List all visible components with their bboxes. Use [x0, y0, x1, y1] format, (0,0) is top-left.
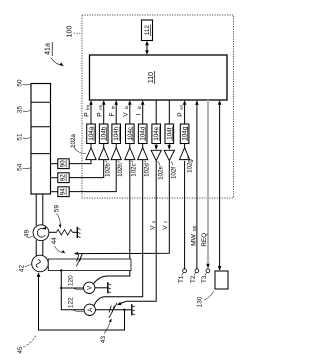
svg-text:T3: T3: [201, 275, 208, 283]
label 41a: [45, 42, 64, 66]
label 130: [197, 291, 214, 307]
svg-text:59: 59: [53, 205, 60, 213]
svg-text:in: in: [110, 105, 115, 109]
svg-text:MW: MW: [191, 233, 198, 245]
box 130: [215, 271, 228, 289]
label 43: [100, 318, 112, 343]
label 102b: [104, 161, 111, 177]
svg-text:45: 45: [17, 346, 24, 354]
svg-text:V: V: [162, 225, 169, 230]
svg-text:44: 44: [51, 237, 58, 245]
svg-text:F: F: [109, 112, 116, 116]
svg-text:102e: 102e: [158, 166, 165, 180]
amplifier triangle 102d: [138, 144, 148, 160]
variable element 43: [109, 303, 117, 318]
svg-text:102a: 102a: [70, 134, 77, 148]
amplifier triangle 102b: [99, 144, 109, 160]
svg-text:41a: 41a: [45, 43, 52, 55]
svg-text:fm: fm: [85, 105, 90, 110]
wire T2 (MW_SE) into 110: [196, 104, 198, 269]
AC source 42: [32, 255, 49, 272]
svg-text:sn: sn: [179, 104, 184, 109]
wire voltmeter to ground: [95, 287, 108, 289]
svg-text:49: 49: [24, 230, 31, 238]
dashed enclosure box 100: [82, 15, 234, 198]
sensor box 92: [51, 173, 70, 183]
svg-text:90: 90: [60, 160, 67, 167]
label 59: [53, 205, 61, 229]
label 102d: [143, 161, 150, 177]
label 35: [17, 106, 31, 114]
label 102e: [158, 161, 165, 180]
ammeter 122: [84, 304, 95, 315]
signal label F_in: [109, 105, 116, 116]
svg-text:50: 50: [17, 79, 24, 87]
wire 110 to 104e: [155, 100, 157, 124]
label 42: [19, 265, 32, 273]
wire pair stack to exciter 49: [35, 194, 37, 226]
svg-text:110: 110: [148, 72, 155, 83]
signal label P_rm: [96, 104, 103, 116]
wire 94 to amp 102h: [69, 160, 116, 192]
svg-text:T1: T1: [178, 275, 185, 283]
converter box 104b: [99, 124, 108, 144]
label 50: [17, 79, 31, 87]
svg-text:122: 122: [67, 297, 74, 308]
svg-text:54: 54: [17, 163, 24, 171]
wire 104g to 110 with arrowhead: [183, 100, 187, 124]
wire 104d to 110 with arrowhead: [141, 100, 145, 124]
junction at 43: [123, 309, 125, 311]
svg-text:SE: SE: [192, 226, 197, 232]
wire: double-headed arrow between 112 and 110: [145, 41, 149, 55]
label 45: [17, 336, 36, 354]
ground (element 43): [132, 304, 135, 315]
svg-text:P: P: [84, 112, 91, 117]
svg-text:T2: T2: [190, 275, 197, 283]
svg-text:P: P: [96, 112, 103, 117]
wire 110 to 104f: [168, 100, 170, 124]
wire 104a to 110 with arrowhead: [89, 100, 93, 124]
svg-text:in: in: [124, 105, 129, 109]
converter box 104a: [87, 124, 96, 144]
svg-text:s: s: [151, 220, 156, 223]
label 44: [51, 237, 65, 254]
sensor box 90: [51, 159, 70, 169]
converter box 104g: [180, 124, 189, 144]
wire 90 to amp 102a: [69, 160, 91, 164]
rotating machine 49: [33, 225, 49, 241]
converter box 104c: [126, 124, 135, 144]
wire 104c to 110 with arrowhead: [128, 100, 132, 124]
sensor box 94: [51, 187, 70, 197]
return wire 45: [37, 272, 125, 330]
amplifier triangle 102a: [86, 144, 96, 160]
svg-text:112: 112: [144, 25, 151, 36]
terminal T2: [195, 269, 199, 273]
svg-text:V: V: [149, 225, 156, 230]
svg-text:rm: rm: [98, 104, 103, 110]
label 102a: [70, 134, 86, 154]
terminal T3: [206, 269, 210, 273]
svg-text:35: 35: [17, 106, 24, 114]
wire ammeter to element 43 and ground: [95, 309, 124, 311]
generator/turbine stack 50-35-51-54: [31, 84, 51, 195]
svg-text:V: V: [122, 112, 129, 117]
svg-text:102c: 102c: [130, 163, 137, 176]
amplifier triangle 102e (output, inverted): [151, 144, 161, 161]
amplifier triangle 102c: [125, 144, 135, 160]
svg-text:51: 51: [17, 133, 24, 141]
converter box 104d: [138, 124, 147, 144]
label 54: [17, 163, 31, 171]
converter box 104e: [152, 124, 161, 144]
svg-text:f: f: [164, 221, 169, 223]
label V_s: [149, 220, 156, 230]
label MW_SE: [191, 226, 198, 246]
variable element 44 on bar: [76, 254, 82, 267]
label 122: [67, 297, 83, 312]
wire V_f: amp 102f down to element 44: [78, 161, 170, 254]
svg-text:94: 94: [60, 188, 67, 195]
label V_f: [162, 221, 169, 230]
wire 92 to amp 102b: [69, 160, 104, 178]
amplifier triangle 102g: [180, 144, 190, 160]
svg-text:P: P: [177, 112, 184, 117]
resistor 59: [49, 230, 77, 236]
box 112: [142, 20, 153, 41]
svg-text:in: in: [137, 105, 142, 109]
svg-text:92: 92: [60, 174, 67, 181]
amplifier triangle 102h: [111, 144, 121, 160]
signal label P_sn: [177, 104, 184, 116]
svg-text:42: 42: [19, 265, 26, 273]
label 49: [24, 230, 33, 238]
converter box 104h: [112, 124, 121, 144]
label 102g: [187, 157, 194, 173]
signal label P_fm: [84, 105, 91, 117]
amplifier triangle 102f (output, inverted): [164, 144, 174, 161]
junction on bar: [60, 269, 62, 271]
wire V_s: amp 102e down to element 43: [126, 161, 156, 301]
wire 104h to 110 with arrowhead: [114, 100, 118, 124]
converter box 104f: [165, 124, 174, 144]
svg-text:120: 120: [67, 275, 74, 286]
wire bar to meters: [61, 271, 84, 310]
svg-text:43: 43: [100, 336, 107, 344]
svg-text:102b: 102b: [104, 163, 111, 177]
label 51: [17, 133, 31, 141]
wire T3 (REQ) gray thick line: [207, 100, 209, 264]
svg-text:102d: 102d: [143, 163, 150, 177]
signal label I_in: [135, 105, 142, 115]
controller box 110: [90, 55, 228, 100]
transmission line bar: [48, 259, 131, 271]
svg-text:102h: 102h: [117, 163, 124, 177]
svg-text:130: 130: [197, 296, 204, 307]
ground (voltmeter): [108, 282, 111, 293]
label 102h: [117, 161, 124, 177]
svg-text:102f: 102f: [171, 167, 178, 179]
terminal T1: [183, 269, 187, 273]
voltmeter 120: [84, 282, 95, 293]
label 100: [67, 26, 81, 38]
signal label V_in: [122, 105, 129, 117]
label 102c: [130, 161, 137, 177]
wire I_in: amp 102d down to ammeter: [94, 160, 143, 306]
wire pair 49 to AC source 42: [35, 240, 37, 256]
wire V_in: amp 102c down to voltmeter: [94, 160, 130, 284]
svg-text:102g: 102g: [187, 159, 194, 173]
svg-text:REQ: REQ: [201, 233, 208, 247]
label 120: [67, 275, 83, 290]
ground (resistor 59): [77, 227, 80, 238]
svg-text:I: I: [135, 113, 142, 115]
wire 110 to box 130 double arrow: [218, 100, 222, 271]
wire 104b to 110 with arrowhead: [102, 100, 106, 124]
wire T1 to amp 102g (P_sn): [184, 161, 186, 269]
svg-text:100: 100: [67, 26, 74, 38]
label 102f: [171, 161, 178, 179]
